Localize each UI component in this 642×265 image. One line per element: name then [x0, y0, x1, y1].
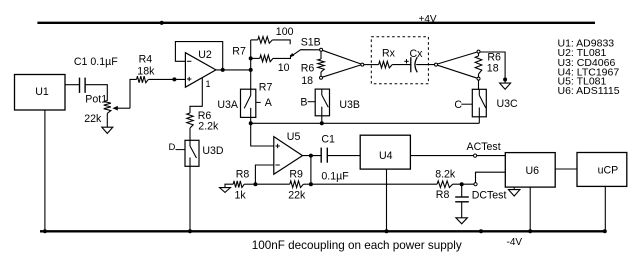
wire node to Rx: [364, 64, 379, 66]
svg-text:S1B: S1B: [301, 36, 321, 48]
svg-text:0.1µF: 0.1µF: [321, 170, 349, 182]
wire U3A to measure bus: [249, 117, 253, 125]
contact node below R6: [320, 72, 323, 79]
svg-text:U5: U5: [287, 131, 301, 143]
-4V power rail: [40, 230, 607, 232]
resistor R6 18 (right): [475, 51, 501, 77]
wire C1 to U4: [327, 155, 360, 157]
U2 feedback wire (output to - input): [175, 42, 224, 72]
svg-text:R6: R6: [487, 51, 501, 63]
svg-text:DCTest: DCTest: [472, 190, 507, 202]
parts list text: [558, 38, 620, 97]
svg-text:U6: U6: [526, 165, 540, 177]
svg-text:C1: C1: [321, 133, 335, 145]
ACTest test point: [467, 141, 501, 157]
R7 label: [232, 46, 246, 58]
control A label: [256, 97, 273, 109]
wire U4 output to U6 (ACTest): [410, 155, 505, 157]
wire top contact to ground: [480, 52, 507, 83]
wire U3B to measure bus: [320, 116, 324, 126]
control C label: [454, 99, 472, 111]
ground at R8: [220, 184, 234, 192]
node wire R7 vertical: [249, 40, 253, 89]
resistor R7 100 branch: [251, 26, 294, 44]
svg-text:D: D: [169, 142, 176, 153]
wire R6 to U3D: [189, 128, 191, 140]
resistor Rx: [379, 48, 396, 68]
wire node to R9: [255, 183, 289, 185]
ground below filter capacitor: [456, 218, 468, 224]
op-amp U5: [274, 131, 303, 174]
switch S1B: [290, 36, 323, 57]
wire U6 to uCP: [555, 168, 577, 170]
svg-text:U3C: U3C: [497, 98, 519, 110]
svg-text:R6: R6: [301, 62, 315, 74]
wire feedback node to R8 8.2k: [311, 183, 437, 185]
wire Pot1 wiper to R4: [130, 79, 137, 108]
svg-text:U3B: U3B: [339, 99, 360, 111]
svg-text:U6: ADS1115: U6: ADS1115: [558, 85, 620, 97]
svg-text:R7: R7: [259, 82, 273, 94]
DCTest test point: [472, 183, 507, 202]
svg-text:+4V: +4V: [419, 14, 437, 25]
ground at sense top: [500, 83, 511, 89]
capacitor C1 0.1uF (RMS input): [321, 133, 349, 182]
resistor R6 2.2k: [187, 110, 219, 133]
-4V label: [507, 237, 523, 248]
wire U4 to -4V rail: [385, 169, 389, 233]
op-amp U2: [185, 49, 216, 89]
wire U2 pin1 to R6: [190, 78, 202, 113]
svg-text:1: 1: [206, 79, 211, 89]
svg-text:18: 18: [301, 75, 313, 87]
wire DCTest to U6: [476, 172, 506, 182]
wire U3C to measure bus: [478, 117, 480, 124]
switch lever wires to DUT node: [322, 50, 361, 77]
+4V power rail: [37, 22, 595, 24]
analog switch U3D: [185, 140, 224, 166]
wire U2 output to R7 node: [216, 69, 251, 71]
svg-text:R9: R9: [289, 169, 303, 181]
potentiometer Pot1 22k: [84, 94, 130, 125]
control B label: [300, 97, 315, 109]
wire bottom contact to U3C: [478, 80, 480, 89]
capacitor C1 0.1uF: [74, 56, 118, 93]
filter capacitor at DCTest: [455, 184, 469, 218]
ground at U6: [509, 187, 520, 196]
svg-text:U2: U2: [198, 49, 212, 61]
wire Cx to right node: [416, 64, 434, 66]
svg-text:-4V: -4V: [507, 237, 523, 248]
svg-text:C1 0.1µF: C1 0.1µF: [74, 56, 118, 68]
IC U6 (ADS1115 ADC): [505, 153, 555, 188]
analog switch U3C: [472, 89, 518, 117]
resistor R6 18 (left): [301, 59, 325, 87]
+4V label: [419, 14, 437, 25]
wire U1 output to C1: [65, 84, 79, 86]
measure bus wire: [251, 122, 480, 124]
wire C1 to Pot1: [85, 85, 107, 101]
DUT dashed box: [371, 37, 428, 84]
svg-text:U4: U4: [379, 150, 393, 162]
svg-text:100: 100: [276, 26, 294, 38]
node on U2 + input wire: [172, 77, 176, 81]
svg-text:Cx: Cx: [410, 48, 424, 60]
svg-text:8.2k: 8.2k: [435, 169, 456, 181]
control D label: [169, 142, 186, 153]
wire R8 to node: [244, 183, 255, 185]
svg-text:2.2k: 2.2k: [198, 121, 219, 133]
analog switch U3A: [217, 89, 255, 117]
IC U4 (LTC1967 RMS): [360, 135, 410, 169]
wire R4 to U2 + input: [148, 78, 185, 80]
svg-text:ACTest: ACTest: [467, 141, 501, 153]
wire Pot1 to ground: [106, 113, 108, 127]
caption note: [252, 239, 462, 252]
resistor R4 18k: [137, 54, 155, 83]
wire S1B to R6 18: [320, 51, 322, 59]
svg-text:Rx: Rx: [382, 48, 396, 60]
svg-text:22k: 22k: [288, 190, 306, 202]
svg-text:R7: R7: [232, 46, 246, 58]
top sense contact: [477, 50, 480, 53]
wire output to feedback node: [310, 156, 312, 185]
svg-text:22k: 22k: [84, 113, 102, 125]
DUT right node: [435, 63, 438, 66]
DUT left node: [361, 63, 364, 66]
resistor R7 10 branch: [251, 55, 291, 74]
svg-text:Pot1: Pot1: [85, 94, 107, 106]
wire 8.2k to DCTest node: [453, 182, 474, 186]
svg-text:18k: 18k: [137, 65, 155, 77]
resistor R8 1k: [233, 168, 249, 201]
svg-text:uCP: uCP: [598, 165, 619, 177]
microcontroller uCP: [577, 153, 627, 187]
bottom sense contact: [477, 77, 480, 80]
wire U5 - input to feedback: [253, 165, 273, 186]
resistor R9 22k: [288, 169, 306, 202]
R7 label near U3A: [259, 82, 273, 94]
wire uCP to -4V rail: [603, 186, 607, 233]
wire U5 output: [303, 154, 322, 158]
wire U3D to -4V rail: [188, 166, 192, 233]
svg-text:1k: 1k: [235, 190, 247, 202]
svg-text:18: 18: [487, 63, 499, 75]
svg-text:R4: R4: [139, 54, 153, 66]
svg-text:R8: R8: [236, 168, 250, 180]
svg-text:C: C: [454, 99, 462, 111]
node on +4V rail: [160, 21, 164, 25]
wire R9 to output node: [303, 182, 313, 186]
svg-text:100nF decoupling on each power: 100nF decoupling on each power supply: [252, 239, 462, 252]
svg-text:R8: R8: [436, 189, 450, 201]
analog switch U3B: [315, 89, 360, 116]
wire U6 to -4V rail: [528, 187, 532, 233]
capacitor Cx (polarized): [404, 48, 423, 73]
wire Rx to Cx: [392, 64, 411, 66]
svg-text:U1: U1: [35, 86, 49, 98]
svg-text:B: B: [300, 97, 307, 109]
svg-text:U3A: U3A: [217, 99, 239, 111]
svg-text:A: A: [265, 97, 273, 109]
IC U1 (AD9833 DDS): [15, 75, 66, 111]
svg-text:U3D: U3D: [202, 145, 224, 157]
wires right node to sense contacts: [437, 52, 477, 78]
wire U1 to -4V rail: [43, 110, 47, 233]
node on -4V rail: [479, 229, 483, 233]
svg-text:10: 10: [278, 62, 290, 74]
ground below Pot1: [102, 127, 113, 133]
wire bus to U5 + input: [251, 123, 274, 146]
resistor R8 8.2k: [435, 169, 456, 202]
